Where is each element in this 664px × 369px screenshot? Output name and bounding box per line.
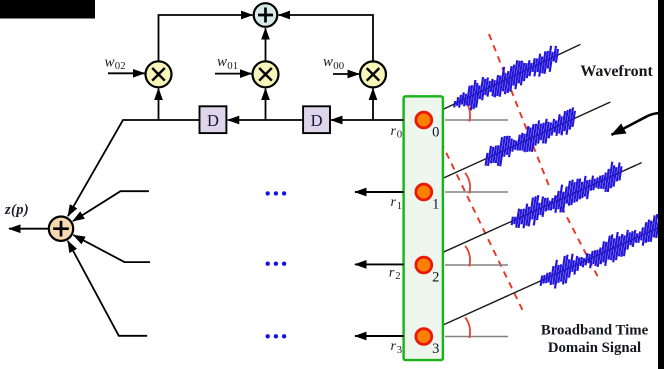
output arrow z(p) — [9, 228, 49, 230]
wire row3 into summer — [68, 241, 147, 336]
wire row2 into summer — [74, 235, 151, 262]
array element 2 — [416, 257, 432, 273]
arrow out of element 1 — [355, 191, 404, 193]
svg-text:00: 00 — [333, 60, 344, 72]
svg-text:01: 01 — [227, 60, 238, 72]
ellipsis row 2 — [266, 262, 287, 266]
svg-text:z(p): z(p) — [4, 202, 29, 218]
arrow out of element 2 — [355, 263, 404, 265]
svg-text:1: 1 — [397, 200, 402, 212]
svg-text:Broadband Time: Broadband Time — [541, 323, 649, 339]
signal ray 2 — [443, 162, 642, 253]
svg-text:1: 1 — [432, 197, 439, 213]
svg-text:3: 3 — [432, 341, 439, 357]
top-left black bar — [0, 0, 95, 19]
wavefront dashed line B — [441, 142, 523, 311]
ellipsis row 3 — [266, 334, 287, 338]
angle arc element 3 — [465, 317, 470, 338]
svg-text:Wavefront: Wavefront — [580, 63, 653, 80]
svg-text:3: 3 — [397, 344, 402, 356]
svg-text:r: r — [391, 195, 397, 210]
angle arc element 0 — [465, 101, 470, 122]
tap arrow to multiplier w00 — [372, 89, 374, 120]
wire D1 to bend and into summer — [68, 120, 200, 216]
svg-text:r: r — [391, 124, 397, 139]
svg-text:D: D — [207, 111, 219, 130]
wire multiplier w02 to summer — [159, 15, 253, 61]
right black strip — [658, 0, 664, 369]
multiplier node w01 — [253, 61, 279, 87]
svg-text:w: w — [323, 54, 333, 70]
left summer node z(p) — [49, 217, 73, 241]
element 0 horizontal axis — [445, 119, 508, 121]
signal ray 0 — [443, 44, 580, 110]
arrow w01 input — [215, 73, 251, 75]
svg-text:w: w — [217, 54, 227, 70]
array element 3 — [416, 329, 432, 345]
delay block D1 — [200, 106, 227, 133]
angle arc element 1 — [465, 173, 470, 194]
wire multiplier w00 to summer — [279, 15, 373, 61]
array element 0 — [416, 112, 432, 128]
ellipsis row 1 — [266, 191, 287, 195]
svg-text:2: 2 — [432, 270, 439, 286]
svg-text:D: D — [311, 111, 323, 130]
antenna array box — [404, 96, 443, 360]
element 1 horizontal axis — [445, 191, 508, 193]
angle arc element 2 — [465, 246, 470, 267]
element 3 horizontal axis — [445, 336, 508, 338]
multiplier node w02 — [146, 61, 172, 87]
arrow w00 input — [333, 73, 359, 75]
wire row1 into summer — [73, 191, 149, 221]
wavefront dashed line C — [556, 196, 600, 281]
svg-text:0: 0 — [432, 125, 439, 141]
svg-text:2: 2 — [395, 270, 400, 282]
svg-text:w: w — [105, 54, 115, 70]
arrow out of element 3 — [355, 335, 404, 337]
svg-text:02: 02 — [115, 60, 126, 72]
tap arrow to multiplier w02 — [158, 89, 160, 120]
wavefront dashed line A — [489, 34, 549, 186]
top summer node — [254, 3, 278, 27]
signal ray 3 — [443, 214, 664, 325]
signal ray 1 — [443, 102, 610, 178]
tap arrow to multiplier w01 — [265, 89, 267, 120]
multiplier node w00 — [360, 61, 386, 87]
svg-text:0: 0 — [397, 129, 402, 141]
delay block D2 — [303, 106, 330, 133]
incoming wave arrow — [612, 113, 661, 135]
array element 1 — [416, 184, 432, 200]
wire multiplier w01 to summer — [265, 28, 267, 61]
wire array elem0 to D2 — [331, 119, 404, 121]
svg-text:r: r — [389, 265, 395, 280]
arrow w02 input — [108, 72, 144, 74]
svg-text:Domain Signal: Domain Signal — [548, 340, 641, 356]
svg-text:r: r — [391, 339, 397, 354]
element 2 horizontal axis — [445, 264, 508, 266]
wire D2 to D1 — [228, 119, 303, 121]
